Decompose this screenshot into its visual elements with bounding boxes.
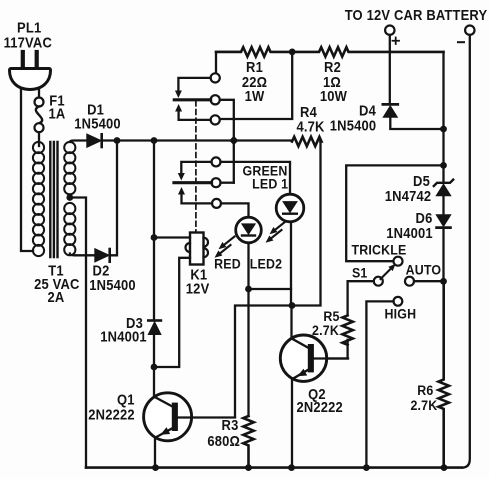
- label minus: [458, 41, 464, 43]
- svg-text:D5: D5: [413, 173, 430, 189]
- label TRICKLE: [351, 242, 406, 258]
- svg-text:Q1: Q1: [117, 392, 135, 408]
- label 4.7K: [296, 119, 324, 135]
- LED1 emission arrows: [266, 222, 286, 243]
- node R3 ground: [245, 464, 252, 471]
- label R2: [324, 59, 341, 75]
- svg-text:1N4742: 1N4742: [385, 188, 432, 204]
- wire D1 to node: [102, 139, 117, 141]
- label 2A: [48, 289, 65, 305]
- svg-text:TO 12V CAR BATTERY: TO 12V CAR BATTERY: [345, 7, 488, 23]
- label R4: [300, 104, 317, 120]
- label R6: [417, 382, 433, 398]
- switch S1 high contact: [394, 297, 403, 306]
- label PL1: [17, 20, 41, 36]
- resistor R5: [342, 315, 352, 344]
- wire trickle node to S1 trickle contact: [346, 165, 443, 261]
- label 1N4001 D6: [386, 225, 433, 241]
- battery plus terminal: [385, 26, 394, 105]
- svg-text:R1: R1: [246, 59, 263, 75]
- transformer T1 secondary upper winding: [64, 142, 75, 194]
- svg-text:D6: D6: [416, 210, 433, 226]
- transformer T1 secondary lower winding: [64, 203, 75, 255]
- wire secondary top to D1: [70, 141, 87, 143]
- label 1N5400 D2: [89, 278, 136, 294]
- svg-text:PL1: PL1: [17, 20, 41, 36]
- svg-text:2N2222: 2N2222: [296, 399, 343, 415]
- svg-text:1N4001: 1N4001: [386, 225, 433, 241]
- svg-text:R4: R4: [300, 104, 317, 120]
- label 2.7K R6: [410, 397, 437, 413]
- label 1N4001 D3: [100, 329, 147, 345]
- relay K1 coil: [186, 233, 209, 265]
- label R5: [323, 308, 339, 324]
- label D3: [126, 315, 143, 331]
- node R1 R2 junction: [289, 49, 296, 56]
- diode D6: [437, 215, 451, 281]
- label D2: [93, 263, 110, 279]
- svg-text:2N2222: 2N2222: [88, 407, 135, 423]
- svg-text:10W: 10W: [320, 88, 347, 104]
- zener diode D5: [434, 165, 453, 215]
- diode D2: [95, 249, 110, 262]
- label D6: [416, 210, 433, 226]
- wire K1 bottom down to collector junction: [154, 258, 190, 367]
- diode D3: [148, 321, 161, 398]
- svg-text:R6: R6: [417, 382, 433, 398]
- switch S1 common contact: [374, 277, 383, 286]
- label TO 12V CAR BATTERY: [345, 7, 488, 23]
- label 1W: [245, 88, 265, 104]
- svg-text:1W: 1W: [245, 88, 265, 104]
- label LED2: [250, 256, 282, 272]
- relay contact set 1 lower terminal and arrow: [175, 104, 220, 125]
- node trickle feed junction: [440, 162, 447, 169]
- label RED: [214, 256, 241, 272]
- plug PL1: [10, 52, 51, 90]
- svg-text:LED 1: LED 1: [252, 176, 288, 192]
- node R6 ground: [441, 464, 448, 471]
- label S1: [352, 265, 368, 281]
- svg-text:R3: R3: [222, 418, 239, 434]
- wire contact set 2 lower to LED2: [221, 203, 249, 217]
- relay contact set 1 fixed arrow upper: [175, 78, 211, 98]
- node LED cathode junction: [245, 286, 252, 293]
- label 1N5400 D4: [330, 118, 377, 134]
- label plus: [393, 38, 400, 45]
- wire D2 up to rectifier node: [110, 141, 117, 256]
- label 680ohm: [207, 433, 240, 449]
- wire main positive rail: [117, 139, 292, 141]
- wire auto contact to node: [414, 280, 444, 282]
- fuse F1: [35, 98, 44, 133]
- wire plug right to fuse: [38, 89, 40, 98]
- node Q2 emitter ground: [288, 464, 295, 471]
- svg-text:1N4001: 1N4001: [100, 329, 147, 345]
- label D5: [413, 173, 430, 189]
- svg-text:12V: 12V: [186, 281, 210, 297]
- node main rail at x154: [151, 137, 158, 144]
- relay contact set 2 upper terminal: [212, 157, 221, 166]
- label 1A: [49, 106, 66, 122]
- wire left line main rail to D3: [153, 141, 155, 321]
- svg-text:1N5400: 1N5400: [330, 118, 377, 134]
- node D4 R2 junction: [440, 126, 447, 133]
- switch S1 auto contact: [405, 277, 414, 286]
- label HIGH: [385, 306, 417, 322]
- svg-text:1N5400: 1N5400: [89, 278, 136, 294]
- label Q1: [117, 392, 135, 408]
- wire K1 top to left line: [154, 236, 190, 238]
- label Q2: [308, 386, 326, 402]
- LED2 emission arrows: [215, 237, 235, 258]
- relay linkage dashed line: [195, 101, 197, 232]
- wire R3 top lead: [247, 289, 249, 416]
- resistor R1: [216, 47, 292, 56]
- label 2N2222 Q1: [88, 407, 135, 423]
- node Q1 emitter ground: [152, 464, 159, 471]
- relay contact set 1 upper terminal: [211, 52, 241, 83]
- svg-text:1A: 1A: [49, 106, 66, 122]
- battery minus terminal: [462, 26, 474, 468]
- svg-text:2A: 2A: [48, 289, 65, 305]
- resistor R6: [439, 281, 449, 467]
- red LED2: [236, 217, 262, 243]
- switch S1 wiper arrow: [381, 264, 396, 279]
- relay contact set 1 common terminal and armature bar: [174, 95, 219, 104]
- label F1: [49, 93, 65, 109]
- label GREEN: [242, 163, 287, 179]
- node high wire ground: [363, 464, 370, 471]
- wire contact set 1 common to main rail: [220, 100, 234, 183]
- label 2N2222 Q2: [296, 399, 343, 415]
- svg-text:4.7K: 4.7K: [296, 119, 324, 135]
- node Q2 collector junction: [289, 302, 296, 309]
- transistor Q1: [144, 393, 235, 468]
- wire S1 common to R5: [348, 281, 374, 315]
- label T1: [48, 263, 64, 279]
- svg-text:D2: D2: [93, 263, 110, 279]
- transformer T1 primary winding: [33, 142, 44, 256]
- wire R1R2 node down to contact common: [220, 52, 292, 119]
- label K1: [190, 267, 207, 283]
- wire centre tap to bottom rail: [70, 198, 86, 468]
- label 25 VAC: [34, 276, 79, 292]
- wire plug left to primary bottom: [21, 90, 33, 252]
- transistor Q2: [280, 306, 348, 468]
- label D1: [87, 102, 104, 118]
- resistor R2: [292, 47, 443, 56]
- wire R5 bottom to Q2 base: [313, 340, 348, 359]
- resistor R4: [292, 137, 322, 146]
- label LED 1: [252, 176, 288, 192]
- relay contact set 2 lower terminal and arrow: [178, 187, 221, 208]
- svg-text:117VAC: 117VAC: [4, 35, 52, 51]
- relay contact set 2 fixed arrow upper: [178, 162, 212, 181]
- node auto junction: [440, 278, 447, 285]
- transformer centre tap: [66, 194, 73, 201]
- node K1 top junction: [151, 234, 158, 241]
- wire fuse to primary top: [38, 132, 40, 146]
- transformer T1 core: [50, 142, 57, 257]
- svg-text:TRICKLE: TRICKLE: [351, 242, 406, 258]
- label 12V: [186, 281, 210, 297]
- wire R4 right down to base node: [235, 142, 321, 418]
- switch S1 trickle contact: [394, 257, 403, 266]
- label D4: [359, 103, 376, 119]
- wire contact set 2 common up to rail: [221, 182, 234, 184]
- wire LED2 cathode to junction: [249, 243, 292, 289]
- label 22ohm: [242, 74, 267, 90]
- node D3 collector junction: [151, 364, 158, 371]
- label R3: [222, 418, 239, 434]
- diode D4: [383, 104, 444, 129]
- svg-text:LED2: LED2: [250, 256, 282, 272]
- label 1N4742: [385, 188, 432, 204]
- svg-text:AUTO: AUTO: [406, 262, 442, 278]
- bottom ground rail: [86, 466, 462, 469]
- svg-text:S1: S1: [352, 265, 368, 281]
- label 1N5400 D1: [74, 116, 121, 132]
- node rectifier output: [114, 137, 121, 144]
- svg-text:HIGH: HIGH: [385, 306, 417, 322]
- green LED1: [276, 194, 304, 222]
- resistor R3: [243, 416, 253, 468]
- relay contact set 2 common terminal and armature bar: [174, 178, 221, 187]
- wire high contact down to ground rail: [366, 301, 393, 467]
- wire contact set 2 upper to LED1: [221, 162, 291, 195]
- label 117VAC: [4, 35, 52, 51]
- label 2.7K R5: [312, 322, 339, 338]
- label R1: [246, 59, 263, 75]
- svg-text:2.7K: 2.7K: [312, 322, 339, 338]
- wire D4 node down to trickle node: [442, 129, 444, 165]
- label 1ohm: [323, 74, 341, 90]
- svg-text:RED: RED: [214, 256, 241, 272]
- label AUTO: [406, 262, 442, 278]
- svg-text:D4: D4: [359, 103, 376, 119]
- wire R2 corner down to D4 node: [442, 52, 444, 129]
- diode D1: [87, 134, 102, 147]
- wire secondary bottom to D2: [70, 254, 95, 256]
- svg-text:2.7K: 2.7K: [410, 397, 437, 413]
- svg-text:680Ω: 680Ω: [207, 433, 240, 449]
- wire LED1 cathode down to collector node: [290, 222, 292, 306]
- svg-text:R2: R2: [324, 59, 341, 75]
- label 10W: [320, 88, 347, 104]
- node main rail at x234: [229, 136, 238, 146]
- svg-text:1N5400: 1N5400: [74, 116, 121, 132]
